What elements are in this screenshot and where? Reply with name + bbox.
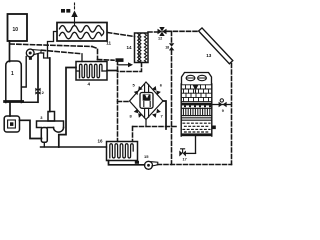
svg-text:1: 1 [11,71,14,77]
diamond bottom stub [145,120,147,127]
tank 1 [6,61,21,103]
dashed drop at x171.5 [171,32,173,44]
svg-text:11: 11 [106,40,111,45]
check valve diamond [130,82,164,120]
pipe from pump down through valve 2 [37,54,39,102]
adsorber vessel [182,73,212,85]
valve V2 [35,88,40,95]
svg-text:18: 18 [165,46,169,50]
dashed horizontal y126.5 [133,126,176,128]
main down pipe to fitting [49,58,51,112]
heat exchanger 16 (coil box bottom) [107,142,138,161]
svg-text:9: 9 [222,109,224,113]
pump outlet pipe joining condenser feed [44,53,50,58]
dashed D2 pump to box4 top [42,50,83,54]
heat-out arrow above condenser [74,3,76,10]
center component (metering device) [145,85,149,118]
wire drop into box 4 top [81,54,83,62]
dashed bottom line [158,164,232,166]
flow label + arrow near box4 right [116,58,124,62]
dashed stub to diamond left corner [118,101,129,103]
box 10 (control unit top-left) [8,14,28,41]
grate [181,108,212,115]
pump 15 [145,161,153,169]
fitting/pump 3 assembly [48,112,55,122]
valve 12 (four-petal) [158,27,167,36]
dashed right edge down from collector [231,64,233,165]
svg-text:16: 16 [98,139,104,144]
wire from box10 down to tank dome [9,41,11,62]
evaporator 4 (coil box) [76,62,107,81]
dashed top line box14 - valve12 - collector [148,31,157,33]
dashed line D1 from box10 to right [10,44,92,47]
svg-text:15: 15 [144,154,149,159]
valve 7 [152,109,161,118]
band2 [181,118,212,120]
dashed corner down [92,47,98,60]
valve 8 [134,109,143,118]
vessel bottom pipe + valve 17 [195,136,197,153]
wire fitting to bottom wire [43,142,45,147]
valve 5 [134,86,143,95]
tank 1 thick base [5,100,23,103]
bricks [181,85,212,102]
svg-text:12: 12 [158,37,162,41]
stub box16 bottom-right [135,161,139,164]
dashed from box14 bottom [118,63,142,72]
liquid [183,122,210,124]
dashed D4 condenser to box14 [108,33,135,37]
svg-text:13: 13 [206,53,212,58]
box4 right stub [107,70,118,72]
wire pump discharge to merge leg [41,52,44,54]
svg-text:17: 17 [183,158,187,162]
condenser 11 (top box with waves) [57,23,107,42]
wire from condenser 11 left stub down [48,32,58,59]
dashed D3 to the right [98,59,115,62]
suction pipe pump 3a to tank wall [21,57,26,87]
wire tank bottom to controller 19 [9,102,11,116]
bottom long wire [41,146,107,148]
valve 6 [152,86,161,95]
wire controller to pump fitting [20,120,42,138]
pump 3a (circulating pump above tank) [26,49,34,57]
svg-text:10: 10 [13,27,19,33]
controller 19 (bottom-left box) [4,116,19,132]
dashed drop to box16 [132,127,134,142]
solar collector 13 [199,28,233,64]
dashed line valve 18 down to bottom [171,50,173,164]
dashed vertical from stub to box16 [117,61,119,142]
heat exchanger 14 (hatched) [135,33,149,63]
box16 to pump 15 [109,161,145,165]
distributor band [181,103,212,106]
wire tank base to valve 2 drop [23,101,38,103]
svg-text:14: 14 [127,45,133,50]
box4 left pipe down to bottom wire [59,68,76,148]
valve 18 [169,43,174,50]
solid pipe diamond right corner down [163,101,166,129]
vessel right valve 9 [212,104,232,106]
